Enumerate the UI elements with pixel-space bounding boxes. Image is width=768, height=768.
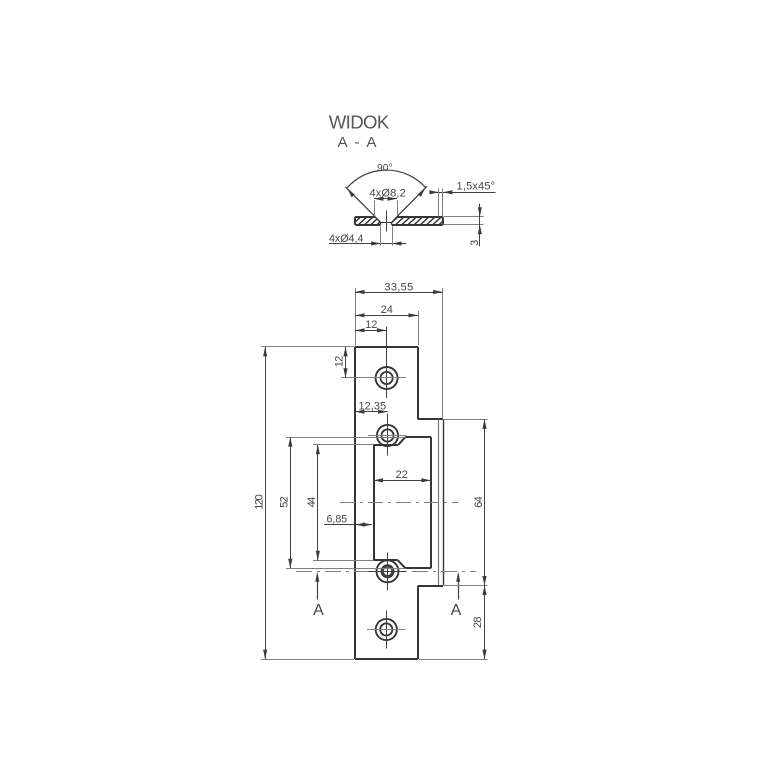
arrow 120 bottom: [263, 650, 267, 660]
dim line 120: [265, 347, 267, 659]
ext 33,55 right: [442, 288, 444, 419]
lip inner bend line: [438, 419, 440, 585]
plate right edge lower: [417, 586, 419, 660]
arrow 3 bottom: [478, 225, 482, 235]
section line A-A dash-dot: [296, 571, 476, 573]
ext 33,55 left: [355, 288, 357, 346]
chamfer ext line outer: [442, 188, 444, 216]
cutout bottom hole extra circle: [383, 567, 392, 576]
svg-text:64: 64: [473, 496, 485, 508]
svg-text:WIDOK: WIDOK: [329, 112, 390, 133]
section arrowhead left: [315, 572, 319, 582]
cutout bottom screw hole bore dia4,4: [381, 565, 393, 577]
ext 52 top: [286, 437, 405, 439]
ext 44 bottom: [313, 560, 373, 562]
svg-text:3: 3: [469, 240, 481, 246]
dim line 3: [479, 204, 481, 247]
arrow 3 top: [478, 207, 482, 217]
dim line 33,55: [355, 292, 443, 294]
dim line 64: [484, 419, 486, 585]
arrow 24 left: [355, 313, 365, 317]
svg-text:6,85: 6,85: [326, 513, 347, 525]
svg-text:12: 12: [334, 356, 346, 367]
ext 120 top: [261, 346, 303, 348]
cutout top hole horizontal centerline: [368, 435, 407, 437]
dim line 6,85: [324, 524, 372, 526]
arrow 12v top: [343, 347, 347, 357]
lower hole horizontal centerline: [367, 629, 406, 631]
arrow 52 bottom: [288, 559, 292, 569]
section bar left end: [354, 217, 356, 225]
ext line 4,4 right: [392, 226, 394, 246]
cutout top screw hole bore dia4,4: [381, 429, 393, 441]
chamfer arrow left: [429, 190, 439, 194]
cutout bottom-left edge: [374, 559, 398, 561]
svg-text:120: 120: [253, 494, 265, 510]
section bar top edge right: [397, 216, 441, 218]
arrow 28 bottom: [482, 650, 486, 660]
arrow 8,2 right: [388, 197, 398, 201]
dim line 12,35: [355, 411, 388, 413]
cutout bottom screw hole countersink dia8,2: [377, 560, 399, 582]
ext line 8,2 right: [397, 201, 399, 216]
dim line 8,2: [374, 198, 397, 200]
arrow 4,4 right: [392, 241, 402, 245]
section arrow line right: [458, 575, 460, 600]
dim line 4,4: [329, 243, 406, 245]
hole right wall: [391, 222, 393, 225]
section bar bottom edge right: [392, 224, 442, 226]
upper hole vertical centerline: [386, 327, 388, 399]
lip top edge: [418, 418, 443, 420]
upper hole horizontal centerline: [341, 377, 406, 379]
dim line 24: [355, 315, 418, 317]
arrow 24 right: [409, 313, 419, 317]
svg-text:28: 28: [472, 617, 484, 629]
cutout top-left edge: [374, 444, 399, 446]
cutout bottom chamfer: [398, 560, 406, 568]
upper screw hole countersink dia8,2: [376, 367, 398, 389]
arrow 44 bottom: [316, 551, 320, 561]
lip outer edge: [443, 419, 445, 585]
horizontal symmetry centerline: [340, 502, 459, 504]
svg-text:24: 24: [381, 304, 393, 316]
svg-text:12,35: 12,35: [359, 400, 387, 412]
section arrow line left: [317, 575, 319, 600]
svg-text:1,5x45°: 1,5x45°: [457, 180, 496, 192]
dim line 12 vert: [345, 347, 347, 378]
ext 64 bottom: [444, 585, 488, 587]
arrow 120 top: [263, 347, 267, 357]
cutout top screw hole countersink dia8,2: [377, 425, 398, 446]
dim line chamfer: [432, 192, 496, 194]
arrow 8,2 left: [374, 197, 384, 201]
cone line left 45deg: [345, 187, 375, 217]
arrow 4,4 left: [371, 241, 381, 245]
arrow 28 top: [482, 586, 486, 596]
lower hole vertical centerline: [386, 611, 388, 649]
ext 52 bottom: [286, 568, 405, 570]
cone-cylinder transition line: [380, 222, 391, 224]
svg-text:52: 52: [279, 496, 291, 508]
countersink left slope: [375, 217, 381, 223]
90deg dimension arc: [347, 170, 426, 188]
plate top edge: [355, 346, 418, 348]
arrow 64 bottom: [482, 576, 486, 586]
section bar bottom edge left: [355, 224, 380, 226]
arrow 12 left: [355, 328, 365, 332]
chamfer arrow right: [443, 190, 453, 194]
arrow 12v bottom: [343, 368, 347, 378]
plate right edge upper: [417, 347, 419, 420]
section line through hole: [368, 571, 406, 573]
ext line thickness top: [444, 216, 484, 218]
dim line 52: [290, 437, 292, 568]
svg-text:22: 22: [396, 469, 408, 481]
countersink right slope: [392, 217, 397, 223]
ext 64 top: [444, 419, 488, 421]
arrow 12,35 right: [378, 410, 388, 414]
arrow 52 top: [288, 437, 292, 447]
arrow 33,55 left: [355, 290, 365, 294]
chamfer ext line inner: [438, 188, 440, 216]
svg-text:12: 12: [365, 319, 377, 331]
arrow 33,55 right: [433, 290, 443, 294]
ext line thickness bottom: [444, 224, 484, 226]
svg-text:44: 44: [306, 497, 318, 508]
cutout right edge: [430, 437, 432, 568]
dim line 22: [374, 480, 431, 482]
svg-text:90°: 90°: [377, 163, 393, 174]
svg-text:A: A: [313, 602, 324, 619]
cutout top hole vertical centerline: [387, 414, 389, 456]
arc arrow right: [418, 188, 426, 197]
lower screw hole countersink dia8,2: [376, 619, 397, 640]
arrow 44 top: [316, 445, 320, 455]
ext 120 bottom: [261, 659, 354, 661]
lip bottom edge: [418, 585, 443, 587]
arrow 6,85 left: [356, 523, 366, 527]
arrow 22 left: [374, 478, 384, 482]
cutout bottom hole vertical centerline: [387, 553, 389, 591]
cutout top chamfer: [398, 437, 405, 445]
ext 28 bottom: [419, 659, 488, 661]
dim line 44: [317, 445, 319, 561]
section arrowhead right: [456, 572, 460, 582]
dim line 28: [484, 586, 486, 660]
upper screw hole bore dia4,4: [381, 372, 393, 384]
section bar right end (chamfered): [441, 217, 443, 225]
section bar top edge left: [355, 216, 375, 218]
ext line 8,2 left: [374, 201, 376, 216]
ext top edge left: [303, 346, 354, 348]
arrow 6,85 right: [363, 523, 373, 527]
ext 44 top: [313, 444, 373, 446]
plate left edge: [354, 347, 356, 659]
hole left wall: [380, 222, 382, 225]
arrow 22 right: [421, 478, 431, 482]
dim line 12: [355, 330, 386, 332]
arrow 12 right: [377, 328, 387, 332]
arrow 64 top: [482, 419, 486, 429]
svg-text:A-A: A-A: [338, 134, 378, 151]
ext 24 right: [418, 311, 420, 346]
arc arrow left: [347, 188, 354, 197]
plate bottom edge: [355, 658, 418, 660]
cutout left edge: [373, 445, 375, 561]
lower screw hole bore dia4,4: [380, 623, 392, 635]
ext line 4,4 left: [380, 226, 382, 246]
arrow 12,35 left: [355, 410, 365, 414]
svg-text:33,55: 33,55: [384, 281, 413, 293]
cone line right 45deg: [397, 186, 427, 216]
cutout bottom-right edge: [405, 567, 431, 569]
svg-text:A: A: [451, 602, 462, 619]
section hole centerline: [386, 211, 388, 232]
cutout top-right edge: [405, 436, 431, 438]
